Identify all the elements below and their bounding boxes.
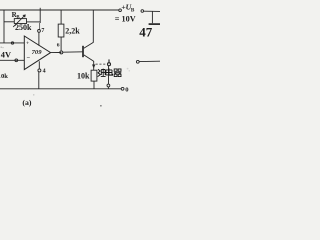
svg-text:709: 709 [32,49,43,56]
node input terminal - [15,59,18,62]
wire to right edge [144,10,160,12]
wire inverting input [0,59,24,61]
resistor R2 2.2k [60,10,62,24]
svg-text:B: B [131,7,135,13]
svg-text:2,2k: 2,2k [65,27,80,36]
transistor Q1 [82,46,84,57]
node 0V terminal [121,87,124,90]
label relay (jidianqi glyphs) [98,68,122,76]
svg-text:4: 4 [43,69,46,75]
svg-text:0: 0 [125,86,129,93]
svg-text:47: 47 [139,24,153,39]
wire op-amp output [51,52,62,54]
svg-text:6: 6 [57,43,60,49]
svg-text:10k: 10k [77,72,90,81]
speckle artifacts [1,47,131,107]
wire bottom 0V rail [0,88,121,90]
svg-text:(a): (a) [22,98,31,107]
wire left vertical branch [3,10,5,43]
node relay contact terminal [136,60,139,63]
wire contact to right edge [140,60,161,62]
svg-text:−: − [26,55,30,62]
svg-text:7: 7 [41,28,44,34]
svg-text:= 10V: = 10V [115,15,136,24]
node +UB terminal [119,9,122,12]
capacitor C1 (cropped, 47) [151,11,153,23]
svg-text:+: + [26,41,29,47]
node input terminal + [11,42,13,44]
svg-text:10k: 10k [0,73,8,80]
node pin 7 [38,30,41,33]
wire non-inverting input [0,42,24,44]
wire to base [63,51,83,53]
node terminal right top [141,10,144,13]
wire pin7 supply drop [39,8,41,23]
op-amp U1 709 [24,36,50,70]
svg-text:250k: 250k [15,23,32,32]
resistor R3 10k [91,70,97,81]
relay coil [96,63,107,65]
wire top +UB rail [0,9,119,11]
resistor RB 250k potentiometer [4,21,14,23]
node pin 6 junction [60,51,63,54]
svg-text:4V: 4V [1,50,11,59]
pin 4 [38,61,40,69]
